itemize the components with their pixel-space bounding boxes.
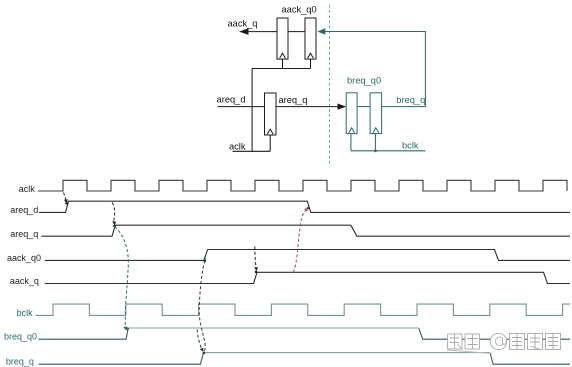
svg-text:bclk: bclk	[402, 141, 419, 151]
waveform bclk	[36, 304, 570, 315]
arrowhead arc2	[112, 221, 116, 225]
flip-flop U0 areq_q	[265, 93, 277, 135]
arrowhead areq_q	[338, 104, 347, 110]
waveform areq_d	[39, 201, 570, 212]
waveform areq_q	[41, 225, 570, 236]
svg-text:bclk: bclk	[17, 308, 34, 318]
causal arc areq_d to areq_q rise	[112, 203, 114, 223]
svg-text:aack_q: aack_q	[228, 19, 258, 29]
U4 clock triangle	[373, 128, 379, 133]
flip-flop U2 aack_q0 (right black FF)	[305, 18, 316, 59]
wire aclk to U2 clock	[310, 59, 312, 68]
svg-text:aclk: aclk	[19, 184, 36, 194]
wire aclk to U0 clock	[269, 135, 271, 151]
causal arc areq_q to breq_q0 rise (teal)	[115, 227, 129, 328]
waveform aclk	[38, 180, 567, 191]
U2 clock triangle	[308, 53, 314, 58]
wire breq_q feedback top	[325, 31, 426, 33]
node dot breq_q0 rise	[126, 327, 129, 330]
waveform aack_q	[45, 272, 570, 283]
svg-text:areq_d: areq_d	[10, 205, 38, 215]
U1 clock triangle	[280, 53, 286, 58]
svg-text:breq_q0: breq_q0	[4, 332, 37, 342]
wire aclk to U1 clock	[282, 59, 284, 68]
causal arc breq_q to aack_q0 rise (dark)	[199, 261, 205, 351]
waveform aack_q0	[45, 250, 570, 261]
svg-text:areq_q: areq_q	[279, 95, 308, 105]
causal arc aack_q0 to aack_q rise	[255, 247, 256, 269]
waveform breq_q	[39, 353, 570, 365]
U3 clock triangle	[349, 128, 355, 133]
clock domain divider (dashed teal)	[329, 5, 331, 166]
waveform breq_q0 high segment	[128, 327, 419, 329]
wire aclk trunk vertical	[251, 69, 253, 152]
svg-text:areq_q: areq_q	[10, 229, 38, 239]
svg-text:aack_q0: aack_q0	[7, 253, 41, 263]
wire breq_q feedback right	[382, 106, 425, 108]
wire bclk to U4 clock	[374, 134, 376, 151]
waveform breq_q0	[39, 328, 571, 339]
wire aack_q output	[246, 31, 277, 33]
svg-text:breq_q: breq_q	[6, 357, 34, 367]
node dot areq_d fall	[307, 207, 310, 210]
flip-flop U1 aack_q (left black FF)	[277, 18, 288, 59]
arrowhead arc4b	[203, 258, 207, 262]
node dot areq_q rise	[113, 225, 116, 228]
wire U2 to U1	[288, 31, 305, 33]
junction bclk	[374, 149, 377, 152]
wire bclk horizontal	[351, 150, 426, 152]
U0 clock triangle	[267, 129, 273, 134]
wire aclk trunk horizontal	[252, 68, 310, 70]
node dot breq_q rise	[203, 352, 206, 355]
svg-text:aclk: aclk	[229, 141, 246, 151]
svg-text:areq_d: areq_d	[217, 95, 246, 105]
wire breq_q feedback vertical	[424, 32, 426, 108]
node dot aack_q rise	[255, 271, 258, 274]
flip-flop U4 breq_q (teal)	[370, 93, 382, 134]
wire aclk horizontal	[233, 150, 271, 152]
arrowhead arc4a	[200, 348, 204, 352]
causal arc breq_q0 to breq_q rise (dark)	[197, 330, 202, 351]
flip-flop U3 breq_q0 (teal)	[346, 93, 357, 134]
arrowhead arc5	[254, 267, 258, 271]
arrowhead arc1	[64, 199, 68, 203]
wire areq_d	[218, 106, 265, 108]
svg-text:aack_q: aack_q	[10, 276, 39, 286]
wire areq_q to B domain	[276, 106, 344, 108]
wire U3 to U4	[357, 106, 370, 108]
arrowhead feedback into U2	[317, 28, 325, 35]
arrowhead arc3	[123, 326, 127, 330]
svg-text:breq_q: breq_q	[396, 95, 425, 105]
causal arc aclk to areq_d rise	[64, 193, 67, 202]
watermark zhihu	[448, 333, 561, 353]
svg-text:aack_q0: aack_q0	[282, 5, 317, 15]
wire bclk to U3 clock	[350, 134, 352, 151]
causal arc aack_q to areq_d fall (red)	[293, 209, 306, 272]
node dot areq_d rise	[65, 202, 68, 205]
arrowhead arc6	[304, 208, 308, 212]
waveform breq_q high segment	[204, 352, 490, 354]
svg-text:breq_q0: breq_q0	[347, 75, 381, 85]
arrowhead aack_q	[239, 28, 249, 35]
